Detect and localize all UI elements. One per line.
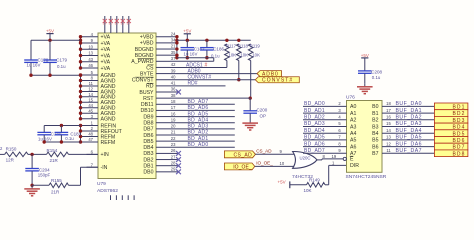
svg-text:+VBD: +VBD bbox=[140, 41, 154, 47]
svg-text:R155: R155 bbox=[51, 178, 62, 183]
svg-text:DB1: DB1 bbox=[143, 163, 153, 169]
pin 14 AGND (left) bbox=[81, 92, 116, 101]
svg-text:BUF_DA2: BUF_DA2 bbox=[396, 115, 423, 121]
pin 22 DB5 (right) bbox=[143, 136, 176, 145]
svg-text:BD_AD4: BD_AD4 bbox=[188, 117, 209, 123]
top pin stub 3 bbox=[116, 16, 118, 33]
svg-text:1u 16V: 1u 16V bbox=[184, 51, 198, 56]
svg-text:BD_AD1: BD_AD1 bbox=[304, 108, 325, 114]
svg-text:BUSY: BUSY bbox=[139, 90, 154, 96]
svg-text:#: # bbox=[205, 63, 208, 69]
pin 10 +VA (left) bbox=[81, 44, 111, 53]
svg-text:RD#: RD# bbox=[188, 81, 198, 87]
top pin stub 1 bbox=[104, 16, 106, 33]
svg-text:0.1u: 0.1u bbox=[57, 64, 66, 69]
svg-text:10K: 10K bbox=[240, 52, 248, 57]
power +5V (R149) bbox=[278, 179, 307, 188]
pin 3 AGND (left) bbox=[81, 114, 116, 123]
svg-text:DB5: DB5 bbox=[143, 139, 153, 145]
svg-text:DB10: DB10 bbox=[141, 108, 154, 114]
svg-text:40: 40 bbox=[171, 74, 176, 79]
pin 21 BDGND (right) bbox=[135, 44, 176, 53]
designator U76 bbox=[346, 95, 355, 101]
net BUF_DA3 wire from B3 bbox=[382, 121, 434, 127]
wire BDGND rail bbox=[177, 58, 214, 62]
svg-text:+VA: +VA bbox=[101, 60, 111, 66]
svg-text:15: 15 bbox=[88, 97, 93, 102]
wire +5V rail top-left bbox=[31, 39, 81, 42]
IC U79 ADS7862 ADC body bbox=[98, 33, 156, 179]
svg-text:BD_AD3: BD_AD3 bbox=[304, 121, 325, 127]
svg-text:12R: 12R bbox=[6, 158, 15, 163]
net CS_AD wire to gate bbox=[256, 149, 298, 155]
IC U76 SN74HCT245 bus transceiver body bbox=[347, 101, 383, 173]
wire C204 top leg bbox=[31, 154, 33, 168]
svg-text:B3: B3 bbox=[372, 124, 378, 130]
net BD_AD3 wire bbox=[170, 124, 235, 130]
svg-text:27: 27 bbox=[171, 154, 176, 159]
pin 1 REFIN (left) bbox=[81, 121, 117, 130]
svg-text:IO_OE_: IO_OE_ bbox=[256, 160, 273, 165]
svg-text:+IN: +IN bbox=[101, 152, 109, 158]
svg-text:BD_AD7: BD_AD7 bbox=[304, 148, 325, 154]
svg-text:AGND: AGND bbox=[101, 117, 116, 123]
pin 12 AGND (left) bbox=[81, 87, 116, 96]
net BD_AD6 wire bbox=[170, 105, 235, 111]
capacitor C186 bbox=[200, 40, 224, 59]
svg-text:BUF_DA1: BUF_DA1 bbox=[396, 108, 423, 114]
svg-text:BUF_DA0: BUF_DA0 bbox=[396, 101, 423, 107]
wire C178 top leg bbox=[30, 40, 32, 60]
wire R117 to ADCS1# bbox=[226, 61, 228, 68]
AGND bus wire bbox=[79, 73, 82, 120]
svg-text:44: 44 bbox=[88, 103, 93, 108]
bottom wire stub 3 bbox=[121, 195, 123, 200]
pin 42 CS (right) bbox=[146, 62, 176, 71]
svg-text:A5: A5 bbox=[350, 138, 356, 144]
pin 20 DB7 (right) bbox=[143, 124, 176, 133]
svg-text:13: 13 bbox=[386, 135, 391, 140]
svg-text:BD8: BD8 bbox=[452, 151, 465, 157]
pin 35 BDGND (right) bbox=[135, 50, 176, 59]
svg-text:+VA: +VA bbox=[101, 53, 111, 59]
svg-text:-IN: -IN bbox=[101, 165, 108, 171]
svg-text:ADCS1: ADCS1 bbox=[186, 62, 203, 68]
svg-text:21: 21 bbox=[171, 44, 176, 49]
port BD1 bbox=[434, 103, 468, 111]
svg-text:13: 13 bbox=[88, 51, 93, 56]
svg-text:A0: A0 bbox=[350, 104, 356, 110]
REF bus wire bbox=[79, 124, 82, 144]
svg-text:31: 31 bbox=[109, 22, 113, 26]
svg-text:38: 38 bbox=[171, 93, 176, 98]
pin 4 +VA (left) bbox=[81, 32, 111, 41]
resistor R119 bbox=[248, 43, 260, 60]
net RD# wire bbox=[170, 81, 226, 87]
net BD_AD7 wire bbox=[170, 99, 235, 105]
svg-text:BDGND: BDGND bbox=[135, 47, 154, 53]
svg-text:BD_AD1: BD_AD1 bbox=[188, 136, 209, 142]
capacitor C204 bbox=[25, 168, 50, 178]
svg-text:33: 33 bbox=[121, 22, 125, 26]
pin A1 bbox=[350, 111, 356, 117]
svg-text:24: 24 bbox=[171, 31, 176, 36]
pin 16 DB9 (right) bbox=[143, 111, 176, 120]
net BUF_DA6 wire from B6 bbox=[382, 141, 434, 147]
pin 41 RD (right) bbox=[146, 81, 176, 90]
pin 2 REFOUT (left) bbox=[81, 126, 123, 135]
svg-text:BD_AD0: BD_AD0 bbox=[304, 101, 325, 107]
pin B1 bbox=[372, 111, 378, 117]
svg-text:26: 26 bbox=[171, 148, 176, 153]
svg-text:37: 37 bbox=[171, 56, 176, 61]
svg-text:B5: B5 bbox=[372, 138, 378, 144]
wire REFM rail bbox=[43, 135, 81, 144]
svg-text:BDGND: BDGND bbox=[135, 53, 154, 59]
pin A3 bbox=[350, 124, 356, 130]
net BD_AD4 wire bbox=[170, 117, 235, 123]
pin 38 RST (right) bbox=[143, 93, 176, 102]
pin 36 BUSY (right) bbox=[139, 87, 176, 96]
svg-text:DB9: DB9 bbox=[143, 114, 153, 120]
svg-text:A_PWRD: A_PWRD bbox=[131, 59, 153, 65]
port BD8 bbox=[434, 150, 468, 158]
svg-text:BUF_DA7: BUF_DA7 bbox=[396, 148, 423, 154]
svg-text:DB8: DB8 bbox=[143, 121, 153, 127]
port BD3 bbox=[434, 116, 468, 124]
pin 37 A_PWRD (right) bbox=[131, 56, 176, 65]
svg-text:CS: CS bbox=[146, 65, 154, 71]
svg-text:+VA: +VA bbox=[101, 47, 111, 53]
svg-text:BUF_DA3: BUF_DA3 bbox=[396, 121, 423, 127]
svg-text:ADS7862: ADS7862 bbox=[97, 188, 118, 194]
svg-text:+VA: +VA bbox=[101, 66, 111, 72]
wire DIR bbox=[329, 160, 347, 184]
svg-text:DIR: DIR bbox=[350, 163, 359, 169]
pin 23 DB4 (right) bbox=[143, 142, 176, 151]
pin 17 DB10 (right) bbox=[141, 105, 177, 114]
svg-text:43: 43 bbox=[88, 57, 93, 62]
capacitor C208 bbox=[358, 70, 383, 84]
no-connect DB2 stub bbox=[170, 157, 181, 162]
net BUF_DA2 wire from B2 bbox=[382, 115, 434, 121]
port ADB0 bbox=[257, 71, 282, 78]
pin 47 REFM (left) bbox=[81, 137, 116, 146]
net BUF_DA1 wire from B1 bbox=[382, 108, 434, 114]
designator U79 bbox=[97, 181, 106, 187]
svg-text:47: 47 bbox=[88, 137, 93, 142]
svg-text:R118: R118 bbox=[238, 43, 249, 48]
net BD_AD1 wire to A1 bbox=[303, 108, 347, 114]
+VA power bus wire bbox=[79, 35, 82, 70]
svg-text:B2: B2 bbox=[372, 118, 378, 124]
resistor R149 bbox=[304, 177, 329, 193]
wire +VBD pins to rail bbox=[170, 35, 179, 59]
svg-text:45: 45 bbox=[88, 108, 93, 113]
svg-text:BUF_DA5: BUF_DA5 bbox=[396, 135, 423, 141]
pin 40 CONVST (right) bbox=[132, 74, 176, 83]
top pin stub 5 bbox=[128, 16, 130, 33]
net BD_AD1 wire bbox=[170, 136, 235, 142]
wire RST to RC bbox=[170, 97, 250, 99]
svg-text:C200: C200 bbox=[257, 108, 268, 113]
svg-text:10K: 10K bbox=[304, 188, 312, 193]
svg-text:16: 16 bbox=[386, 115, 391, 120]
svg-text:A1: A1 bbox=[350, 111, 356, 117]
wire C204 bottom leg bbox=[30, 171, 33, 187]
port BD6 bbox=[434, 137, 468, 145]
svg-text:B1: B1 bbox=[372, 111, 378, 117]
net ADB0 wire bbox=[170, 69, 257, 75]
svg-text:BD_AD6: BD_AD6 bbox=[188, 105, 209, 111]
svg-text:39: 39 bbox=[171, 68, 176, 73]
pin 27 DB2 (right) bbox=[143, 154, 176, 163]
pin 18 DB11 (right) bbox=[141, 99, 176, 108]
wire R150 to R154 bbox=[28, 153, 47, 156]
svg-text:REFM: REFM bbox=[101, 140, 116, 146]
pin 21 DB6 (right) bbox=[143, 130, 176, 139]
svg-text:BD_AD7: BD_AD7 bbox=[188, 99, 209, 105]
svg-text:C186: C186 bbox=[213, 47, 224, 52]
svg-text:R154: R154 bbox=[47, 148, 58, 153]
net BUF_DA4 wire from B4 bbox=[382, 128, 434, 134]
value SN74HCT245NSR bbox=[346, 174, 387, 180]
svg-text:U20C: U20C bbox=[300, 155, 311, 160]
bottom wire stub 2 bbox=[115, 195, 117, 200]
svg-text:18: 18 bbox=[386, 101, 391, 106]
svg-text:R117: R117 bbox=[226, 43, 237, 48]
net BD_AD4 wire to A4 bbox=[303, 128, 347, 134]
pin 15 AGND (left) bbox=[81, 97, 116, 106]
pin 7 -IN (left) bbox=[87, 162, 108, 171]
pin 9 +VA (left) bbox=[81, 38, 111, 47]
svg-text:11: 11 bbox=[386, 148, 391, 153]
svg-text:+VA: +VA bbox=[101, 41, 111, 47]
svg-text:+5V: +5V bbox=[46, 29, 54, 34]
svg-text:U76: U76 bbox=[346, 95, 355, 101]
svg-text:BD_AD0: BD_AD0 bbox=[188, 142, 209, 148]
pin 5 AGND (left) bbox=[81, 70, 116, 79]
power +5V (C208) bbox=[361, 53, 369, 71]
svg-text:C179: C179 bbox=[56, 58, 67, 63]
net BD_AD2 wire to A2 bbox=[303, 115, 347, 121]
svg-text:21R: 21R bbox=[50, 158, 59, 163]
svg-text:10: 10 bbox=[88, 44, 93, 49]
pin 26 DB3 (right) bbox=[143, 148, 176, 157]
pin 48 REFM (left) bbox=[81, 132, 116, 141]
net BD_AD2 wire bbox=[170, 130, 235, 136]
svg-text:BUF_DA4: BUF_DA4 bbox=[396, 128, 423, 134]
svg-text:0.1u: 0.1u bbox=[372, 75, 381, 80]
svg-text:11: 11 bbox=[89, 81, 94, 86]
svg-text:34: 34 bbox=[127, 22, 131, 26]
pin 24 +VBD (right) bbox=[140, 31, 176, 40]
svg-text:B4: B4 bbox=[372, 131, 378, 137]
ground (below C208) bbox=[357, 83, 373, 94]
svg-text:18: 18 bbox=[171, 99, 176, 104]
pin 11 AGND (left) bbox=[81, 81, 116, 90]
bottom wire stub 5 bbox=[133, 195, 135, 200]
svg-text:0.1u: 0.1u bbox=[65, 136, 74, 141]
svg-text:41: 41 bbox=[171, 81, 176, 86]
pin 13 +VA (left) bbox=[81, 51, 111, 60]
no-connect DB1 stub bbox=[170, 163, 181, 168]
svg-text:10K: 10K bbox=[252, 52, 260, 57]
net IO_OE wire to gate bbox=[255, 160, 297, 166]
wire REFIN rail bbox=[44, 124, 80, 127]
net BD_AD6 wire to A6 bbox=[303, 141, 347, 147]
ground (below C204) bbox=[24, 185, 40, 196]
no-connect DB3 stub bbox=[170, 151, 181, 156]
net BD_AD0 wire to A0 bbox=[303, 101, 347, 107]
pin 39 BYTE (right) bbox=[140, 68, 176, 77]
pin A7 bbox=[350, 151, 356, 157]
net BD_AD3 wire to A3 bbox=[303, 121, 347, 127]
pin 8 AGND (left) bbox=[81, 76, 116, 85]
svg-text:B0: B0 bbox=[372, 104, 378, 110]
svg-text:17: 17 bbox=[386, 108, 391, 113]
svg-text:U79: U79 bbox=[97, 181, 106, 187]
svg-text:30: 30 bbox=[103, 22, 107, 26]
resistor R155 bbox=[49, 178, 69, 194]
svg-text:20: 20 bbox=[171, 124, 176, 129]
svg-text:+5V: +5V bbox=[361, 53, 369, 58]
wire R119 to RST bbox=[249, 61, 252, 100]
capacitor C182 bbox=[181, 40, 205, 59]
svg-text:46: 46 bbox=[88, 63, 93, 68]
capacitor C179 bbox=[43, 40, 67, 69]
pin 46 +VA (left) bbox=[81, 63, 111, 72]
svg-text:42: 42 bbox=[171, 62, 176, 67]
pin 19 DB8 (right) bbox=[143, 117, 176, 126]
pin 45 AGND (left) bbox=[81, 108, 116, 117]
svg-text:10K: 10K bbox=[229, 52, 237, 57]
capacitor C181 bbox=[55, 126, 82, 141]
wire A_PWRD to BDGND rail bbox=[170, 60, 214, 62]
top pin stub 4 bbox=[122, 16, 124, 33]
svg-text:SN74HCT245NSR: SN74HCT245NSR bbox=[346, 174, 387, 180]
svg-text:32: 32 bbox=[115, 22, 119, 26]
pin A5 bbox=[350, 138, 356, 144]
svg-text:21R: 21R bbox=[51, 189, 60, 194]
svg-text:CONVST#: CONVST# bbox=[188, 74, 212, 80]
svg-text:150pF: 150pF bbox=[38, 173, 51, 178]
wire R155 to -IN bbox=[69, 167, 99, 185]
capacitor C178 bbox=[24, 58, 49, 68]
svg-text:19: 19 bbox=[332, 154, 337, 159]
svg-text:B6: B6 bbox=[372, 144, 378, 150]
resistor R118 bbox=[237, 43, 249, 60]
svg-text:12: 12 bbox=[88, 87, 93, 92]
svg-text:28: 28 bbox=[171, 160, 176, 165]
port BD4 bbox=[434, 123, 468, 131]
svg-text:BD_AD5: BD_AD5 bbox=[304, 135, 325, 141]
port BD5 bbox=[434, 130, 468, 138]
svg-text:A6: A6 bbox=[350, 144, 356, 150]
net BUF_DA7 wire from B7 bbox=[382, 148, 434, 154]
svg-text:A4: A4 bbox=[350, 131, 356, 137]
no-connect DB0 stub bbox=[170, 169, 181, 174]
value ADS7862 bbox=[97, 188, 118, 194]
net BD_AD5 wire to A5 bbox=[303, 135, 347, 141]
pin B5 bbox=[372, 138, 378, 144]
net BD_AD5 wire bbox=[170, 111, 235, 117]
capacitor C200 bbox=[243, 98, 267, 119]
pin B0 bbox=[372, 104, 378, 110]
pin B4 bbox=[372, 131, 378, 137]
svg-text:BYTE: BYTE bbox=[140, 71, 154, 77]
svg-text:16: 16 bbox=[171, 111, 176, 116]
pin B2 bbox=[372, 118, 378, 124]
svg-text:+5V: +5V bbox=[278, 179, 286, 184]
svg-text:29: 29 bbox=[171, 167, 176, 172]
ground (below C200) bbox=[242, 120, 258, 131]
no-ERC marker on top pin 4 bbox=[121, 19, 125, 26]
net label 2 (left edge) bbox=[0, 146, 3, 151]
svg-text:DB0: DB0 bbox=[143, 170, 153, 176]
svg-text:OP: OP bbox=[260, 113, 267, 118]
svg-text:21: 21 bbox=[171, 130, 176, 135]
or-gate U20C bbox=[293, 151, 317, 168]
svg-text:12: 12 bbox=[386, 141, 391, 146]
pin A4 bbox=[350, 131, 356, 137]
net BUF_DA5 wire from B5 bbox=[382, 135, 434, 141]
pin 1 DIR bbox=[350, 163, 359, 169]
pin A0 bbox=[350, 104, 356, 110]
pin 34 +VBD (right) bbox=[140, 38, 176, 47]
svg-text:14: 14 bbox=[88, 92, 93, 97]
wire AGND rail below caps bbox=[29, 63, 82, 77]
svg-text:19: 19 bbox=[171, 117, 176, 122]
wire R118 to CONVST# bbox=[237, 61, 240, 82]
svg-text:36: 36 bbox=[171, 87, 176, 92]
wire gate output to E bbox=[317, 154, 343, 160]
pin 43 +VA (left) bbox=[81, 57, 111, 66]
pin B7 bbox=[372, 151, 378, 157]
svg-text:DB2: DB2 bbox=[143, 157, 153, 163]
svg-text:BD_AD5: BD_AD5 bbox=[188, 111, 209, 117]
svg-text:A2: A2 bbox=[350, 118, 356, 124]
pin 19 E enable with bubble bbox=[343, 156, 354, 163]
net BUF_DA0 wire from B0 bbox=[382, 101, 434, 107]
capacitor C180 bbox=[37, 126, 61, 142]
power +5V (top-left) bbox=[46, 29, 54, 41]
svg-text:35: 35 bbox=[171, 50, 176, 55]
port IO_OE bbox=[224, 163, 254, 171]
svg-text:BUF_DA6: BUF_DA6 bbox=[396, 141, 423, 147]
port BD2 bbox=[434, 110, 468, 118]
svg-text:22: 22 bbox=[171, 136, 176, 141]
port CONVST# bbox=[255, 77, 299, 84]
net BD_AD7 wire to A7 bbox=[303, 148, 347, 154]
no-ERC marker on top pin 1 bbox=[103, 19, 107, 26]
svg-text:DB11: DB11 bbox=[141, 102, 154, 108]
no-ERC marker on top pin 2 bbox=[109, 19, 113, 26]
wire +5V rail (mid) bbox=[177, 39, 251, 42]
svg-text:BD_AD4: BD_AD4 bbox=[304, 128, 325, 134]
pin 44 AGND (left) bbox=[81, 103, 116, 112]
svg-text:DB7: DB7 bbox=[143, 127, 153, 133]
svg-text:CONVST#: CONVST# bbox=[262, 78, 293, 84]
svg-text:+5V: +5V bbox=[183, 29, 191, 34]
pin 6 +IN (left) bbox=[87, 150, 109, 159]
svg-text:C208: C208 bbox=[371, 70, 382, 75]
svg-text:10: 10 bbox=[280, 161, 285, 166]
svg-text:DB3: DB3 bbox=[143, 151, 153, 157]
top pin stub 2 bbox=[110, 16, 112, 33]
svg-text:BD_AD2: BD_AD2 bbox=[188, 130, 209, 136]
svg-text:CONVST: CONVST bbox=[132, 78, 154, 84]
